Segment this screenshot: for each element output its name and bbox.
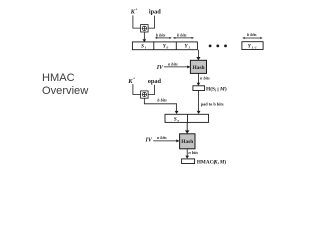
label HMAC(K, M)	[197, 159, 227, 166]
label Si	[141, 44, 146, 50]
dimension b bits over YL-1	[242, 32, 263, 39]
title: HMAC Overview	[42, 72, 88, 99]
wire Hash1 to H(Si||M) with n bits	[197, 74, 210, 86]
svg-text:): )	[224, 159, 226, 166]
label YL-1	[248, 44, 257, 50]
label K+ (inner, top)	[130, 7, 139, 16]
svg-text:ipad: ipad	[149, 9, 161, 16]
wire IV to Hash2 with n bits	[153, 135, 179, 143]
svg-text:n bits: n bits	[157, 135, 167, 140]
svg-text:n bits: n bits	[188, 150, 198, 155]
wire bar2 to Hash2 (arrow)	[185, 122, 189, 133]
svg-text:HMAC(: HMAC(	[197, 159, 215, 166]
svg-text:Hash: Hash	[181, 139, 193, 145]
svg-text:+: +	[135, 7, 138, 12]
wire ipad to XOR1	[148, 16, 155, 29]
svg-text:opad: opad	[148, 78, 162, 85]
svg-text:b bits: b bits	[156, 32, 166, 37]
label Y0	[163, 44, 169, 50]
svg-text:S: S	[141, 44, 144, 50]
svg-text:b bits: b bits	[247, 32, 257, 37]
svg-text:H(S: H(S	[206, 86, 215, 93]
wire opad to XOR2	[148, 85, 154, 95]
svg-text:o: o	[178, 118, 180, 122]
wire K+ to XOR2	[133, 84, 141, 95]
label K+ (outer, lower)	[127, 76, 136, 85]
wire Hash2 to HMAC output with n bits	[185, 149, 198, 159]
svg-text:b bits: b bits	[157, 97, 167, 102]
wire IV to Hash1 with n bits	[164, 61, 191, 68]
block H(Si||M)	[193, 86, 205, 91]
wire XOR2 to bar2 with b bits	[144, 97, 178, 114]
label H(Si||M)	[206, 86, 227, 93]
wire bar1 to Hash1 (arrow)	[196, 50, 200, 61]
svg-text:n bits: n bits	[200, 75, 210, 80]
svg-text:+: +	[133, 76, 136, 81]
svg-text:1: 1	[188, 46, 190, 50]
ellipsis dots	[209, 45, 227, 48]
block bar2 (So | padded H)	[165, 114, 209, 122]
block Hash1	[190, 60, 206, 73]
label Y1	[185, 44, 191, 50]
block cell YL-1	[242, 42, 263, 50]
dimension b bits over Y0	[155, 32, 172, 39]
svg-text:n bits: n bits	[168, 61, 178, 66]
svg-text:IV: IV	[156, 65, 164, 71]
svg-text:0: 0	[167, 46, 169, 50]
svg-text:Hash: Hash	[192, 65, 204, 71]
block bar1 (Si | Y0 | Y1)	[132, 42, 197, 50]
block Hash2	[180, 134, 195, 149]
svg-text:i: i	[145, 46, 146, 50]
svg-text:IV: IV	[145, 138, 153, 144]
label So	[174, 116, 180, 122]
dimension b bits over Y1	[173, 32, 194, 39]
svg-text:b bits: b bits	[177, 32, 187, 37]
svg-text:||: ||	[217, 86, 219, 91]
wire K+ to XOR1	[133, 15, 141, 28]
xor XOR2 (K+ xor opad)	[141, 91, 149, 98]
svg-text:S: S	[174, 116, 177, 122]
wire pad to b bits (to bar2)	[197, 91, 224, 115]
wire XOR1 to bar Si (arrow)	[143, 32, 147, 42]
svg-text:pad to b bits: pad to b bits	[201, 101, 224, 106]
svg-text:L-1: L-1	[251, 46, 257, 50]
block HMAC output	[182, 159, 195, 164]
svg-text:): )	[225, 86, 227, 93]
xor XOR1 (K+ xor ipad)	[141, 25, 149, 32]
